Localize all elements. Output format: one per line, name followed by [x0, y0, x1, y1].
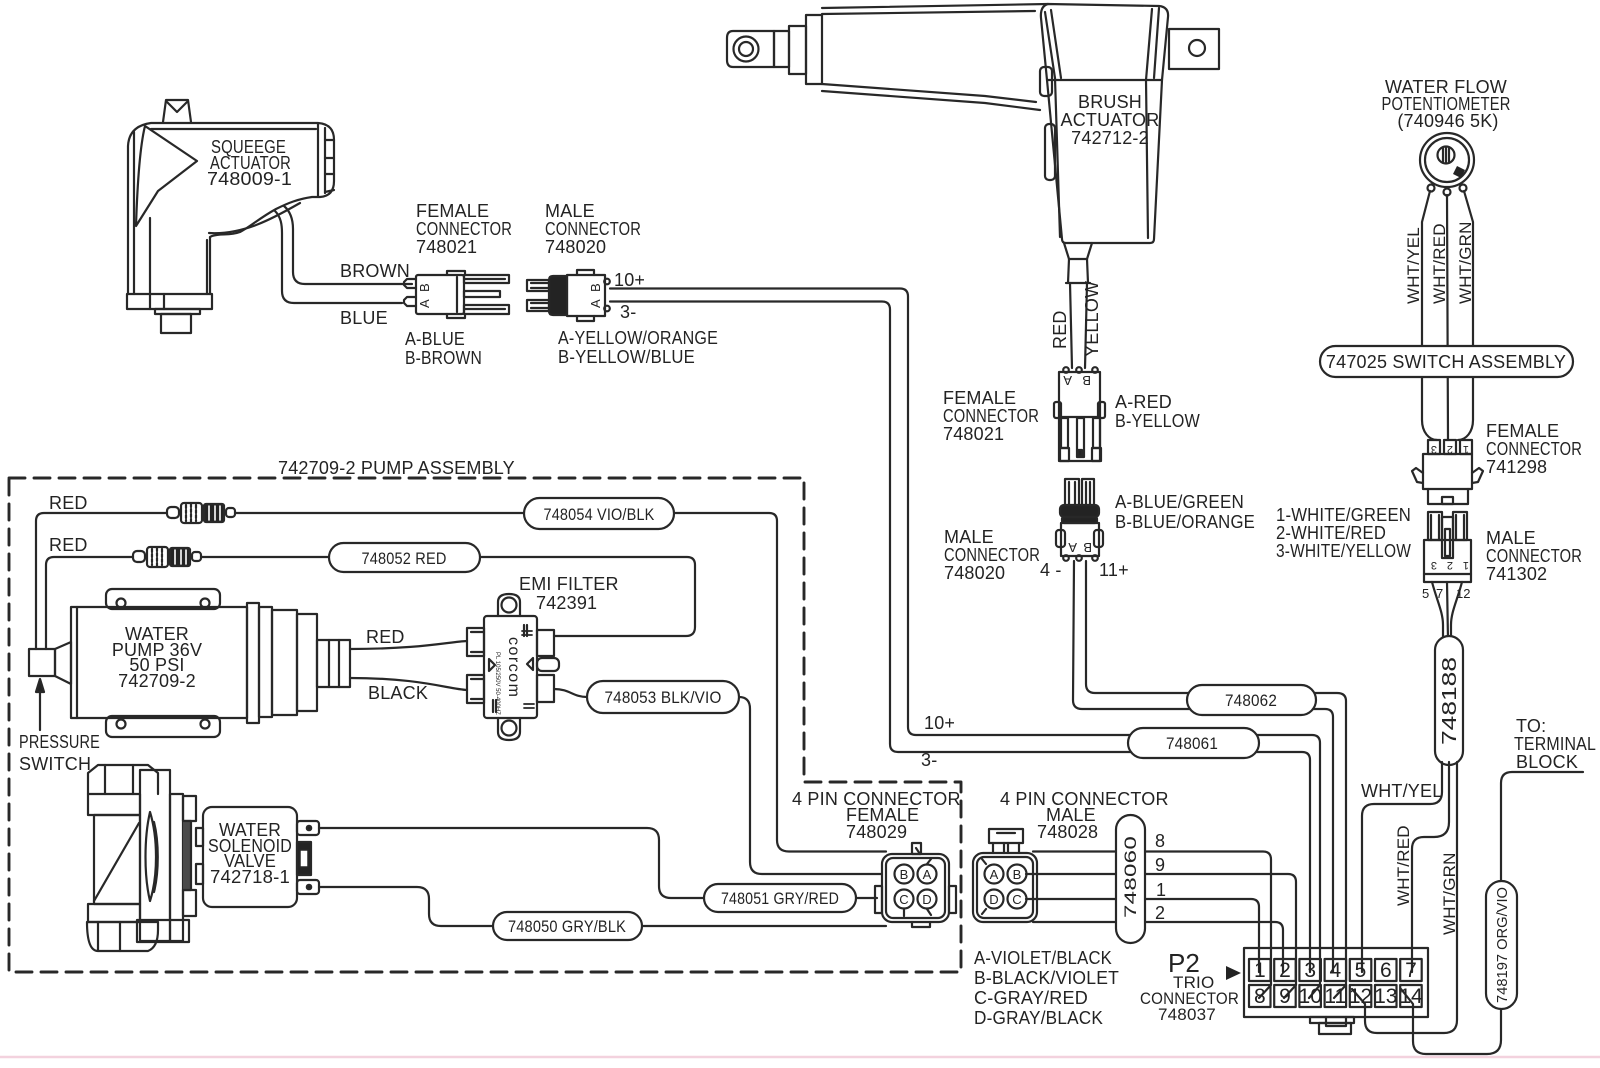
wire 2 — [1033, 922, 1283, 972]
wire black pump-emi — [350, 678, 467, 690]
svg-text:CONNECTOR: CONNECTOR — [1486, 546, 1582, 566]
svg-text:748021: 748021 — [943, 424, 1004, 444]
svg-text:A-VIOLET/BLACK: A-VIOLET/BLACK — [974, 948, 1112, 968]
svg-text:EMI FILTER: EMI FILTER — [519, 574, 619, 594]
svg-text:748021: 748021 — [416, 237, 477, 257]
wires 741302 to 748188 — [1432, 582, 1443, 640]
svg-text:748051 GRY/RED: 748051 GRY/RED — [721, 889, 839, 908]
svg-text:13: 13 — [1374, 985, 1397, 1008]
svg-text:748060: 748060 — [1121, 836, 1140, 918]
wire wht/yel to pin5 — [1362, 762, 1442, 972]
svg-text:3: 3 — [1304, 959, 1316, 982]
svg-text:SWITCH: SWITCH — [19, 754, 91, 774]
svg-text:MALE: MALE — [944, 527, 994, 547]
svg-text:CONNECTOR: CONNECTOR — [943, 406, 1039, 426]
svg-text:9: 9 — [1279, 985, 1291, 1008]
svg-text:A: A — [990, 867, 999, 882]
svg-text:WHT/YEL: WHT/YEL — [1404, 227, 1423, 304]
svg-text:2: 2 — [1447, 559, 1453, 571]
4 pin connector male 748028 — [973, 829, 1037, 922]
pink artifact line — [0, 1056, 1600, 1059]
svg-text:MALE: MALE — [1486, 528, 1536, 548]
wire red 1 (to 748054) — [36, 513, 886, 852]
svg-text:8: 8 — [1155, 831, 1165, 851]
capsule 748053 blk/vio — [587, 681, 739, 713]
svg-text:A-YELLOW/ORANGE: A-YELLOW/ORANGE — [558, 328, 718, 348]
svg-text:748029: 748029 — [846, 822, 907, 842]
wire 10+ long — [610, 289, 1320, 999]
svg-text:C-GRAY/RED: C-GRAY/RED — [974, 988, 1088, 1008]
svg-text:748188: 748188 — [1439, 657, 1461, 745]
svg-text:BLUE: BLUE — [340, 308, 388, 328]
svg-text:WHT/YEL: WHT/YEL — [1361, 781, 1442, 801]
svg-text:YELLOW: YELLOW — [1082, 281, 1102, 357]
svg-text:A: A — [1068, 540, 1077, 555]
wire wht/red (pot) — [1447, 195, 1448, 440]
svg-text:B-BLACK/VIOLET: B-BLACK/VIOLET — [974, 968, 1119, 988]
svg-text:A: A — [1063, 373, 1072, 388]
svg-text:2: 2 — [1155, 903, 1165, 923]
female connector 741298 — [1412, 440, 1483, 504]
capsule 747025 switch assembly — [1320, 346, 1573, 377]
svg-text:12: 12 — [1456, 586, 1470, 601]
svg-text:D: D — [922, 892, 931, 907]
wire 11+ — [1086, 561, 1346, 998]
wire gry/blk solenoid to 748050 — [319, 887, 886, 926]
svg-text:B-BLUE/ORANGE: B-BLUE/ORANGE — [1115, 512, 1255, 532]
svg-text:C: C — [1012, 892, 1021, 907]
svg-text:RED: RED — [366, 627, 405, 647]
svg-text:D: D — [989, 892, 998, 907]
svg-text:741298: 741298 — [1486, 457, 1547, 477]
male connector 748020 (mid) — [1056, 479, 1103, 561]
female connector 748021 (top-left) — [404, 271, 465, 318]
wire blue — [275, 211, 402, 303]
pressure switch — [29, 642, 71, 730]
svg-text:A: A — [923, 867, 932, 882]
svg-text:RED: RED — [1050, 310, 1070, 349]
svg-text:WHT/RED: WHT/RED — [1430, 223, 1449, 304]
wire wht/grn (pot) — [1458, 191, 1473, 440]
svg-text:742709-2: 742709-2 — [118, 671, 196, 691]
wire gry/red solenoid to 748051 — [319, 828, 877, 898]
svg-text:BROWN: BROWN — [340, 261, 410, 281]
svg-text:1: 1 — [1463, 559, 1469, 571]
svg-text:B: B — [588, 283, 603, 292]
svg-text:7: 7 — [1436, 586, 1443, 601]
svg-text:B: B — [1013, 867, 1022, 882]
brush actuator 742712-2 — [727, 4, 1219, 283]
female connector 748021 (mid) — [1054, 367, 1105, 461]
svg-text:WHT/GRN: WHT/GRN — [1456, 221, 1475, 304]
svg-text:A: A — [588, 299, 603, 308]
male connector 748020 (top-left) — [527, 270, 605, 321]
water pump 36v — [71, 589, 350, 737]
capsule 748061 — [1128, 728, 1259, 758]
svg-text:B: B — [900, 867, 909, 882]
emi filter 742391 — [467, 594, 559, 740]
squeegee actuator 748009-1 — [127, 100, 334, 333]
svg-text:B-YELLOW/BLUE: B-YELLOW/BLUE — [558, 347, 695, 367]
wire wht/yel (pot) — [1422, 191, 1437, 440]
svg-text:748053 BLK/VIO: 748053 BLK/VIO — [605, 688, 722, 707]
svg-text:10: 10 — [1299, 985, 1322, 1008]
fuse 2 — [133, 547, 201, 567]
svg-text:WHT/GRN: WHT/GRN — [1440, 852, 1459, 935]
svg-text:748020: 748020 — [944, 563, 1005, 583]
svg-text:TERMINAL: TERMINAL — [1514, 734, 1596, 754]
svg-text:1: 1 — [1463, 443, 1469, 455]
svg-text:A: A — [417, 299, 432, 308]
P2 trio connector 748037 — [1244, 948, 1428, 1034]
svg-text:TO:: TO: — [1516, 716, 1546, 736]
svg-text:FEMALE: FEMALE — [943, 388, 1016, 408]
svg-text:RED: RED — [49, 535, 88, 555]
pin squares — [1249, 959, 1422, 1007]
svg-text:742391: 742391 — [536, 593, 597, 613]
svg-text:A-BLUE/GREEN: A-BLUE/GREEN — [1115, 492, 1244, 512]
wire wht/grn to pin12 — [1352, 762, 1457, 1033]
svg-text:742712-2: 742712-2 — [1071, 128, 1149, 148]
svg-text:12: 12 — [1349, 985, 1372, 1008]
wire 8 — [1033, 852, 1271, 999]
svg-text:BLOCK: BLOCK — [1516, 752, 1578, 772]
svg-text:1-WHITE/GREEN: 1-WHITE/GREEN — [1276, 505, 1411, 525]
wire 1 — [1026, 899, 1259, 972]
svg-text:FEMALE: FEMALE — [1486, 421, 1559, 441]
wire 9 — [1026, 874, 1296, 998]
svg-text:B-YELLOW: B-YELLOW — [1115, 411, 1200, 431]
water solenoid valve 742718-1 — [87, 765, 319, 951]
svg-text:742709-2 PUMP ASSEMBLY: 742709-2 PUMP ASSEMBLY — [278, 458, 515, 478]
svg-text:CONNECTOR: CONNECTOR — [1486, 439, 1582, 459]
svg-text:FEMALE: FEMALE — [416, 201, 489, 221]
svg-text:2: 2 — [1447, 443, 1453, 455]
male connector 741302 — [1424, 512, 1471, 582]
svg-text:10+: 10+ — [614, 270, 645, 290]
capsule 748051 gry/red — [704, 884, 856, 912]
svg-text:4 -: 4 - — [1040, 560, 1062, 580]
svg-text:1: 1 — [1156, 880, 1166, 900]
svg-text:742718-1: 742718-1 — [210, 867, 290, 887]
wire red 2 (to 748052) — [46, 557, 695, 649]
pump assembly dashed box — [9, 478, 961, 972]
wire red pump-emi — [350, 641, 467, 649]
svg-text:14: 14 — [1399, 985, 1423, 1008]
wire red (brush) — [1070, 283, 1072, 368]
svg-text:MALE: MALE — [545, 201, 595, 221]
svg-text:748054 VIO/BLK: 748054 VIO/BLK — [544, 505, 655, 524]
svg-text:748050 GRY/BLK: 748050 GRY/BLK — [508, 917, 626, 936]
svg-text:9: 9 — [1155, 855, 1165, 875]
svg-text:748009-1: 748009-1 — [207, 169, 292, 189]
svg-text:PRESSURE: PRESSURE — [19, 732, 100, 752]
capsule 748054 vio/blk — [524, 498, 674, 529]
svg-text:747025 SWITCH ASSEMBLY: 747025 SWITCH ASSEMBLY — [1326, 352, 1566, 372]
svg-text:5: 5 — [1422, 586, 1429, 601]
svg-text:7: 7 — [1405, 959, 1417, 982]
svg-text:(740946 5K): (740946 5K) — [1397, 111, 1498, 131]
svg-text:1: 1 — [1254, 959, 1266, 982]
svg-text:B: B — [1083, 540, 1092, 555]
capsule 748052 red — [329, 543, 480, 572]
wire blk/vio emi to capsule and 4pin — [554, 689, 882, 874]
svg-text:D-GRAY/BLACK: D-GRAY/BLACK — [974, 1008, 1103, 1028]
svg-text:5: 5 — [1355, 959, 1367, 982]
capsule 748062 — [1187, 685, 1316, 715]
wire to terminal block + 748197 to pin14 — [1401, 772, 1583, 1054]
4 pin connector female 748029 — [875, 843, 956, 927]
svg-text:3-WHITE/YELLOW: 3-WHITE/YELLOW — [1276, 541, 1411, 561]
svg-text:4: 4 — [1329, 959, 1341, 982]
capsule 748060 — [1116, 815, 1145, 943]
svg-text:741302: 741302 — [1486, 564, 1547, 584]
svg-text:748061: 748061 — [1166, 734, 1218, 753]
svg-text:WHT/RED: WHT/RED — [1394, 825, 1413, 906]
svg-text:CONNECTOR: CONNECTOR — [944, 545, 1040, 565]
svg-text:11+: 11+ — [1099, 560, 1129, 580]
svg-text:B-BROWN: B-BROWN — [405, 348, 482, 368]
svg-text:B: B — [417, 283, 432, 292]
svg-text:CONNECTOR: CONNECTOR — [545, 219, 641, 239]
svg-text:BLACK: BLACK — [368, 683, 428, 703]
svg-text:11: 11 — [1324, 985, 1346, 1008]
svg-text:3-: 3- — [620, 302, 636, 322]
wire 3- long — [610, 302, 1310, 973]
svg-text:BRUSH: BRUSH — [1078, 92, 1142, 112]
svg-text:B: B — [1082, 373, 1091, 388]
capsule 748197 — [1486, 881, 1517, 1009]
svg-text:ACTUATOR: ACTUATOR — [1061, 110, 1160, 130]
svg-text:CONNECTOR: CONNECTOR — [416, 219, 512, 239]
svg-text:748028: 748028 — [1037, 822, 1098, 842]
wire 4- — [1073, 561, 1333, 972]
wire brown — [284, 206, 412, 284]
capsule 748188 — [1435, 636, 1463, 765]
svg-text:8: 8 — [1254, 985, 1266, 1008]
svg-text:748062: 748062 — [1225, 691, 1277, 710]
water flow potentiometer 740946 — [1420, 133, 1474, 196]
wire yellow (brush) — [1085, 283, 1087, 368]
capsule 748050 gry/blk — [493, 912, 642, 940]
svg-text:2: 2 — [1279, 959, 1291, 982]
svg-text:C: C — [899, 892, 908, 907]
svg-text:748052 RED: 748052 RED — [362, 549, 447, 568]
svg-text:3-: 3- — [921, 750, 937, 770]
svg-text:748037: 748037 — [1158, 1005, 1216, 1024]
fuse 1 — [167, 503, 235, 523]
svg-text:PL 105/250V 50-400HZ: PL 105/250V 50-400HZ — [494, 652, 500, 715]
svg-text:10+: 10+ — [924, 713, 955, 733]
svg-text:748197 ORG/VIO: 748197 ORG/VIO — [1494, 887, 1511, 1003]
svg-text:RED: RED — [49, 493, 88, 513]
svg-text:6: 6 — [1380, 959, 1392, 982]
svg-text:2-WHITE/RED: 2-WHITE/RED — [1276, 523, 1386, 543]
wire wht/red to pin7 — [1412, 762, 1449, 972]
svg-text:A-BLUE: A-BLUE — [405, 329, 465, 349]
svg-text:corcom: corcom — [505, 637, 522, 698]
svg-text:3: 3 — [1431, 443, 1437, 455]
svg-text:748020: 748020 — [545, 237, 606, 257]
svg-text:A-RED: A-RED — [1115, 392, 1172, 412]
svg-text:3: 3 — [1431, 559, 1437, 571]
